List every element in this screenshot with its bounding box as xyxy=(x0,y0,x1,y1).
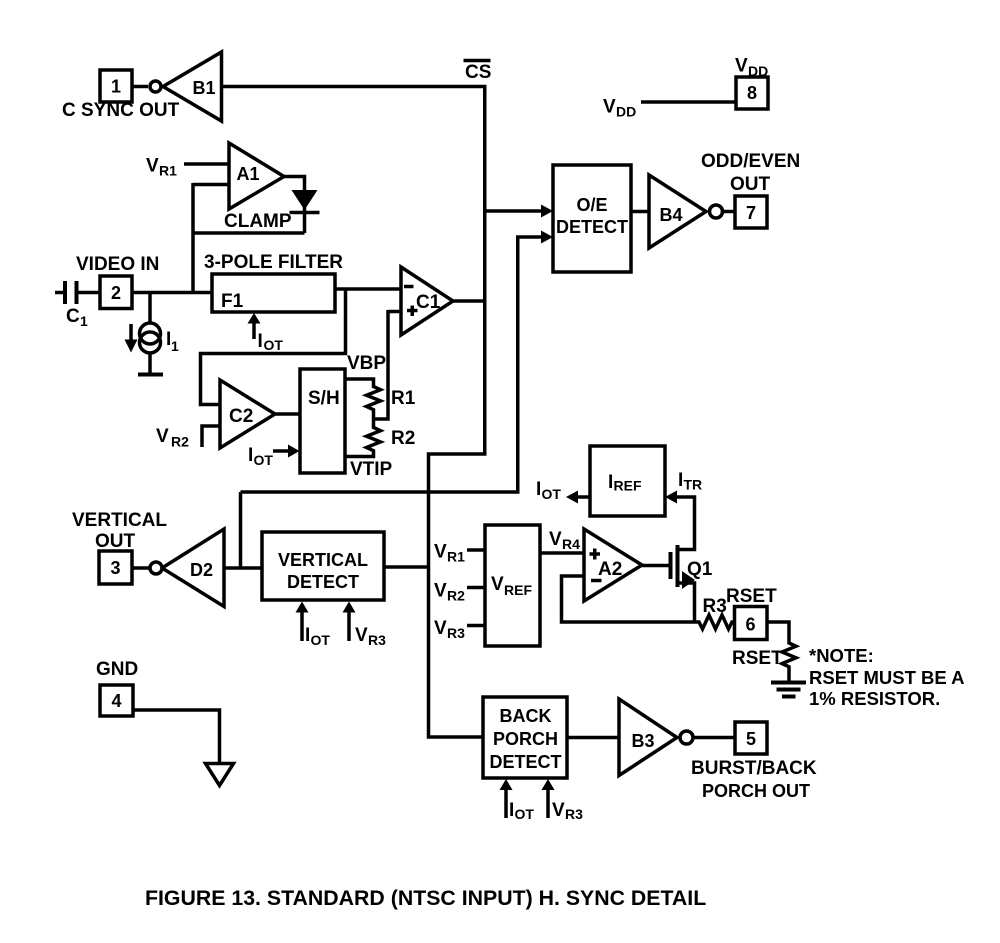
svg-text:I: I xyxy=(248,445,253,466)
svg-text:FIGURE 13. STANDARD (NTSC INP: FIGURE 13. STANDARD (NTSC INPUT) H. SYNC… xyxy=(145,886,706,910)
svg-text:DETECT: DETECT xyxy=(287,572,359,592)
svg-text:V: V xyxy=(355,625,368,646)
svg-text:S/H: S/H xyxy=(308,388,340,409)
svg-text:I: I xyxy=(509,800,514,821)
svg-text:I: I xyxy=(305,625,310,646)
svg-text:VERTICAL: VERTICAL xyxy=(278,550,368,570)
svg-text:I: I xyxy=(536,479,541,500)
svg-text:1% RESISTOR.: 1% RESISTOR. xyxy=(809,688,940,709)
svg-text:C SYNC OUT: C SYNC OUT xyxy=(62,100,180,121)
svg-text:OUT: OUT xyxy=(95,531,136,552)
svg-text:V: V xyxy=(603,97,616,118)
svg-text:6: 6 xyxy=(745,615,755,635)
svg-text:CLAMP: CLAMP xyxy=(224,211,292,232)
svg-text:VBP: VBP xyxy=(347,353,386,374)
svg-text:B4: B4 xyxy=(659,205,682,225)
svg-text:BACK: BACK xyxy=(500,706,552,726)
svg-text:R1: R1 xyxy=(391,388,416,409)
svg-text:O/E: O/E xyxy=(576,195,607,215)
svg-text:V: V xyxy=(434,581,447,602)
svg-text:RSET: RSET xyxy=(726,586,777,607)
svg-text:VERTICAL: VERTICAL xyxy=(72,510,167,531)
svg-text:I: I xyxy=(258,331,263,352)
svg-text:1: 1 xyxy=(171,338,179,354)
svg-text:R2: R2 xyxy=(447,588,465,604)
svg-text:C2: C2 xyxy=(229,406,253,427)
svg-text:CS: CS xyxy=(465,62,491,83)
svg-text:1: 1 xyxy=(111,77,121,97)
svg-text:OT: OT xyxy=(311,632,331,648)
svg-text:GND: GND xyxy=(96,659,138,680)
svg-text:I: I xyxy=(678,470,683,491)
svg-text:DD: DD xyxy=(748,63,768,79)
svg-text:Q1: Q1 xyxy=(687,559,713,580)
svg-text:V: V xyxy=(549,529,562,550)
svg-text:A1: A1 xyxy=(236,164,259,184)
svg-text:4: 4 xyxy=(111,691,121,711)
svg-text:R1: R1 xyxy=(447,549,465,565)
svg-text:VTIP: VTIP xyxy=(350,459,393,480)
svg-text:V: V xyxy=(491,574,504,595)
svg-text:C: C xyxy=(66,306,80,327)
svg-text:ODD/EVEN: ODD/EVEN xyxy=(701,151,800,172)
svg-text:R3: R3 xyxy=(565,806,583,822)
svg-text:3-POLE FILTER: 3-POLE FILTER xyxy=(204,252,343,273)
svg-text:*NOTE:: *NOTE: xyxy=(809,645,874,666)
svg-text:3: 3 xyxy=(110,558,120,578)
svg-text:D2: D2 xyxy=(190,560,213,580)
svg-text:7: 7 xyxy=(746,203,756,223)
svg-text:5: 5 xyxy=(746,729,756,749)
svg-text:OT: OT xyxy=(515,806,535,822)
svg-text:8: 8 xyxy=(747,83,757,103)
svg-text:BURST/BACK: BURST/BACK xyxy=(691,758,817,779)
svg-text:R2: R2 xyxy=(391,428,415,449)
svg-text:REF: REF xyxy=(614,478,642,494)
svg-text:OUT: OUT xyxy=(730,174,771,195)
svg-text:V: V xyxy=(735,56,748,77)
svg-text:2: 2 xyxy=(111,283,121,303)
svg-text:V: V xyxy=(434,542,447,563)
svg-text:R1: R1 xyxy=(159,163,177,179)
svg-text:OT: OT xyxy=(254,452,274,468)
svg-text:TR: TR xyxy=(684,477,703,493)
svg-text:DETECT: DETECT xyxy=(490,752,562,772)
svg-text:R4: R4 xyxy=(562,536,580,552)
svg-text:PORCH OUT: PORCH OUT xyxy=(702,781,810,801)
svg-text:A2: A2 xyxy=(598,559,622,580)
svg-text:V: V xyxy=(156,426,169,447)
svg-text:B1: B1 xyxy=(192,78,215,98)
svg-text:PORCH: PORCH xyxy=(493,729,558,749)
svg-text:R2: R2 xyxy=(171,434,189,450)
svg-text:V: V xyxy=(434,618,447,639)
svg-text:V: V xyxy=(552,800,565,821)
svg-text:1: 1 xyxy=(80,313,88,329)
svg-text:R3: R3 xyxy=(703,596,727,617)
svg-text:RSET: RSET xyxy=(732,648,783,669)
svg-text:DETECT: DETECT xyxy=(556,217,628,237)
svg-text:RSET MUST BE A: RSET MUST BE A xyxy=(809,667,965,688)
svg-text:OT: OT xyxy=(542,486,562,502)
svg-text:V: V xyxy=(146,156,159,177)
svg-text:DD: DD xyxy=(616,104,636,120)
svg-text:F1: F1 xyxy=(221,291,244,312)
svg-text:R3: R3 xyxy=(368,632,386,648)
svg-text:VIDEO IN: VIDEO IN xyxy=(76,254,159,275)
svg-text:R3: R3 xyxy=(447,625,465,641)
svg-text:B3: B3 xyxy=(631,731,654,751)
svg-text:I: I xyxy=(608,472,613,493)
svg-text:C1: C1 xyxy=(416,292,441,313)
svg-text:OT: OT xyxy=(264,337,284,353)
svg-text:REF: REF xyxy=(504,582,532,598)
